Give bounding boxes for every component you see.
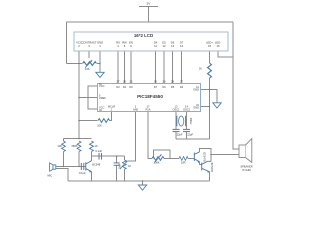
svg-text:GND: GND [97, 41, 103, 45]
svg-text:D6: D6 [171, 41, 175, 45]
svg-text:CONTRAST: CONTRAST [81, 41, 96, 45]
svg-text:LED+: LED+ [206, 41, 213, 45]
svg-text:8 OHM: 8 OHM [242, 168, 250, 172]
svg-text:D2: D2 [116, 85, 120, 89]
svg-text:0.1uF: 0.1uF [79, 171, 86, 175]
svg-text:LED-: LED- [215, 41, 221, 45]
svg-text:1K: 1K [128, 164, 131, 168]
svg-text:22pF: 22pF [187, 133, 193, 137]
svg-text:GND: GND [193, 105, 199, 109]
svg-text:D4: D4 [154, 41, 158, 45]
svg-text:11: 11 [154, 44, 157, 48]
svg-text:1K: 1K [95, 144, 98, 148]
svg-text:5V: 5V [147, 2, 151, 6]
svg-text:10K: 10K [97, 123, 102, 127]
svg-text:MIC: MIC [48, 174, 53, 178]
svg-text:OSC2: OSC2 [183, 108, 191, 112]
svg-text:D5: D5 [162, 41, 166, 45]
svg-text:RS: RS [116, 41, 120, 45]
svg-text:10K: 10K [85, 67, 90, 71]
svg-text:22pF: 22pF [177, 133, 183, 137]
svg-text:10R: 10R [181, 160, 186, 164]
svg-text:12: 12 [162, 44, 166, 48]
svg-text:D7: D7 [154, 85, 158, 89]
svg-text:100K: 100K [154, 160, 160, 164]
svg-text:SPEAKER: SPEAKER [240, 164, 252, 168]
svg-text:EN: EN [129, 41, 133, 45]
svg-text:10uF: 10uF [118, 163, 122, 169]
svg-text:BC547B: BC547B [203, 152, 206, 162]
svg-text:D1: D1 [123, 85, 127, 89]
svg-text:16: 16 [216, 44, 220, 48]
svg-text:15: 15 [208, 44, 212, 48]
svg-text:BC547B: BC547B [210, 163, 213, 173]
svg-text:RW: RW [122, 41, 127, 45]
svg-text:VREF: VREF [99, 96, 106, 100]
svg-text:14: 14 [180, 44, 184, 48]
svg-text:PIC18F4550: PIC18F4550 [137, 94, 163, 99]
svg-text:10K: 10K [57, 144, 62, 148]
svg-text:680K: 680K [71, 144, 77, 148]
svg-text:1K: 1K [199, 67, 202, 71]
svg-text:16*2 LCD: 16*2 LCD [134, 33, 153, 38]
svg-text:D6: D6 [162, 85, 166, 89]
svg-text:BC548: BC548 [92, 163, 100, 167]
svg-text:D5: D5 [171, 85, 175, 89]
svg-text:0.1uF: 0.1uF [96, 149, 103, 153]
svg-text:13: 13 [171, 44, 175, 48]
svg-text:AN0: AN0 [133, 108, 139, 112]
svg-text:P1A: P1A [146, 108, 151, 112]
svg-text:D7: D7 [180, 41, 184, 45]
svg-text:D4: D4 [180, 85, 184, 89]
svg-text:4MHz: 4MHz [189, 118, 193, 125]
svg-text:OSC1: OSC1 [172, 108, 180, 112]
svg-text:D0: D0 [129, 85, 133, 89]
